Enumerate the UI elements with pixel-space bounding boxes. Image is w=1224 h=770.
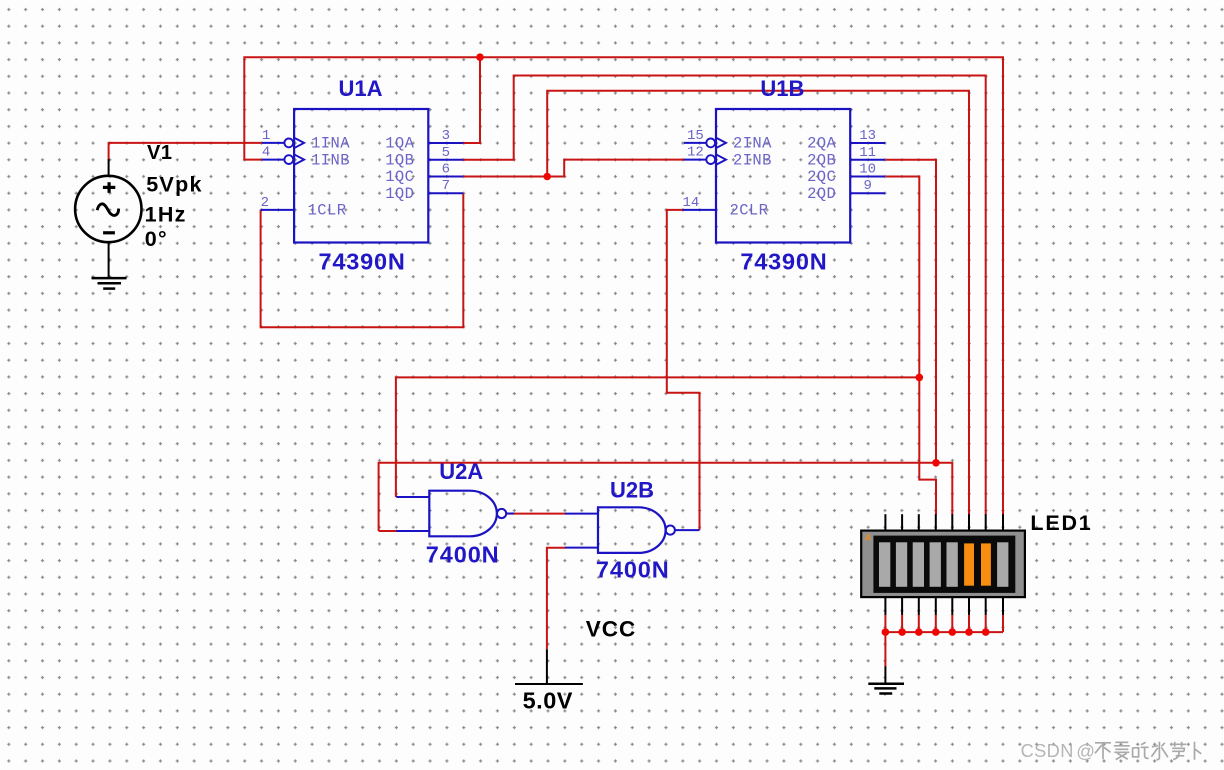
pin 15 2INA of U1B: [684, 128, 726, 148]
pin 9 of U1B: [850, 178, 885, 194]
pin 6 of U1A: [428, 162, 463, 178]
output bubble of U2B: [666, 526, 675, 535]
junction on 1QA rail: [476, 53, 484, 61]
junction on 2QB net: [932, 459, 940, 467]
svg-text:2INB: 2INB: [733, 151, 772, 169]
svg-text:7400N: 7400N: [596, 556, 670, 582]
svg-text:14: 14: [683, 195, 700, 211]
IC U1B 74390N body: [716, 109, 850, 243]
svg-text:1QB: 1QB: [385, 151, 414, 169]
wire U2A output to U2B input A: [507, 513, 566, 515]
ground symbol below V1: [92, 278, 127, 289]
svg-text:A: A: [865, 533, 872, 544]
svg-text:V1: V1: [147, 142, 172, 164]
svg-text:2QA: 2QA: [807, 135, 836, 153]
svg-text:1CLR: 1CLR: [308, 202, 347, 220]
output stub of U2B: [675, 529, 700, 531]
input stubs of U2B: [565, 514, 598, 548]
junction on 2QC vertical: [916, 374, 924, 382]
svg-text:1QA: 1QA: [385, 135, 414, 153]
svg-text:U2A: U2A: [439, 459, 483, 484]
svg-text:0°: 0°: [145, 227, 168, 251]
pin 5 of U1A: [428, 145, 463, 161]
pin 3 of U1A: [428, 128, 463, 144]
svg-text:13: 13: [859, 128, 876, 144]
input stubs of U2A: [396, 497, 429, 531]
pin 13 of U1B: [850, 128, 885, 144]
wire net 2QB branch to U2A input B and LED pin 5: [379, 463, 953, 531]
pin 4 1INB of U1A: [262, 145, 304, 165]
wire net 1QA rail: U1A pin 4 to LED pin 8: [244, 57, 1003, 514]
watermark CSDN @ user id: [1021, 740, 1202, 761]
pin 10 of U1B: [850, 162, 885, 178]
svg-text:1: 1: [262, 128, 270, 144]
VCC power source symbol: [515, 649, 583, 684]
pin 11 of U1B: [850, 145, 885, 161]
svg-text:7400N: 7400N: [426, 542, 500, 568]
wire net 1QC: U1A pin 6 to LED pin 6: [462, 91, 969, 515]
svg-text:1QD: 1QD: [385, 185, 414, 203]
svg-text:2INA: 2INA: [733, 135, 772, 153]
LED1 top pins: [885, 514, 1003, 531]
svg-text:6: 6: [442, 162, 450, 178]
AC voltage source V1: [75, 159, 141, 278]
svg-text:1Hz: 1Hz: [145, 203, 187, 227]
pin 14 2CLR of U1B: [683, 195, 717, 211]
svg-text:2QB: 2QB: [807, 151, 836, 169]
NAND gate U2B 7400N body: [598, 507, 666, 553]
svg-text:3: 3: [442, 128, 450, 144]
LED1 bottom pins: [885, 597, 1003, 615]
LED bargraph LED1 body: [861, 531, 1025, 598]
svg-text:5: 5: [442, 145, 450, 161]
pin 12 2INB of U1B: [684, 145, 726, 165]
svg-text:CSDN: CSDN: [1021, 741, 1074, 761]
svg-text:1QC: 1QC: [385, 168, 414, 186]
wire U2B output to U1B pin 14 (2CLR): [667, 210, 700, 530]
ground symbol below LED1: [868, 666, 904, 693]
svg-text:5Vpk: 5Vpk: [146, 173, 203, 197]
svg-text:U1B: U1B: [760, 76, 804, 101]
wire U1A pin 3 up to 1QA rail: [462, 57, 480, 143]
wire U2A input B stub join: [379, 530, 397, 532]
svg-text:74390N: 74390N: [319, 248, 406, 274]
svg-text:10: 10: [859, 162, 876, 178]
wire VCC to U2B input B: [547, 548, 566, 650]
svg-text:15: 15: [687, 128, 704, 144]
svg-text:11: 11: [859, 145, 876, 161]
svg-text:12: 12: [687, 145, 704, 161]
svg-text:U1A: U1A: [339, 76, 383, 101]
output stub of U2A: [506, 513, 514, 515]
output bubble of U2A: [497, 509, 506, 518]
svg-text:5.0V: 5.0V: [523, 687, 573, 713]
svg-text:2CLR: 2CLR: [730, 202, 769, 220]
wire V1 to U1A pin 1 (1INA): [109, 143, 262, 159]
wire net 1QC branch to U1B 2INB: [547, 160, 684, 177]
wire net 1QB: U1A pin 5 to LED pin 7: [462, 76, 985, 515]
junctions on LED1 cathode bus: [882, 628, 990, 636]
svg-text:9: 9: [863, 178, 871, 194]
svg-text:U2B: U2B: [610, 477, 654, 502]
pin 2 1CLR of U1A: [261, 195, 295, 211]
pin 7 of U1A: [428, 178, 463, 194]
svg-text:VCC: VCC: [586, 616, 637, 641]
svg-text:1INA: 1INA: [311, 135, 350, 153]
svg-text:LED1: LED1: [1030, 511, 1092, 535]
wire net 2QC branch to U2A input A: [396, 377, 919, 497]
IC U1A 74390N body: [294, 109, 428, 243]
wire net 2QB: U1B pin 11 down right side: [886, 160, 936, 463]
wire U1A pin 7 (1QD) loop to pin 2 (1CLR): [261, 193, 464, 327]
svg-text:2: 2: [261, 195, 269, 211]
svg-text:@: @: [1076, 740, 1095, 761]
svg-text:1INB: 1INB: [311, 151, 350, 169]
svg-text:74390N: 74390N: [740, 248, 827, 274]
pin 1 1INA of U1A: [262, 128, 304, 148]
wire LED1 cathode bus: [885, 614, 1003, 667]
LED1 inner window: [873, 536, 1015, 593]
svg-text:2QC: 2QC: [807, 168, 836, 186]
NAND gate U2A 7400N body: [429, 491, 497, 537]
svg-text:2QD: 2QD: [807, 185, 836, 203]
junction on 1QC at U1A pin 6: [543, 173, 551, 181]
LED1 segment bars: [879, 542, 1008, 587]
svg-text:7: 7: [442, 178, 450, 194]
wire net 2QC: U1B pin 10 down to LED pin 4: [886, 177, 936, 515]
svg-text:4: 4: [262, 145, 270, 161]
